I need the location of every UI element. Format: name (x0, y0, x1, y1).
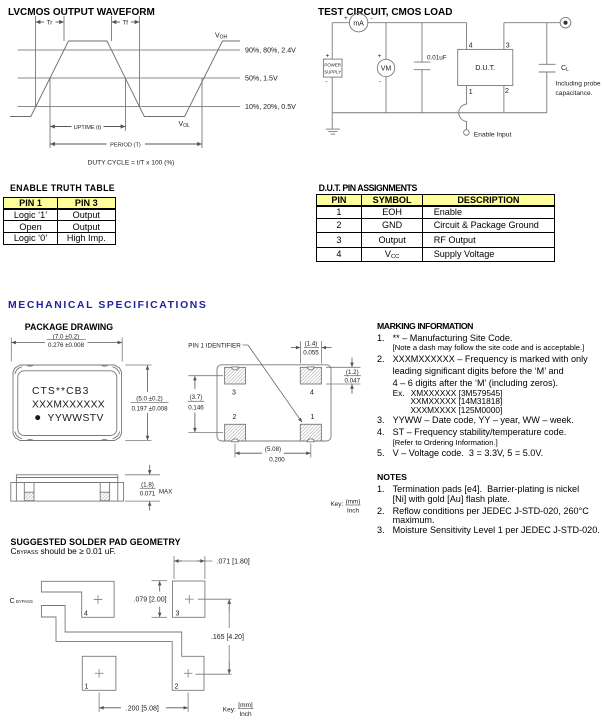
width dimension 7.0 (11, 338, 122, 362)
svg-text:0.276 ±0.008: 0.276 ±0.008 (48, 342, 85, 349)
svg-text:4: 4 (84, 611, 88, 618)
DUT U1 (458, 49, 513, 85)
waveform 50% reference line (18, 77, 241, 79)
svg-text:2: 2 (233, 414, 237, 421)
svg-text:(3.7): (3.7) (190, 394, 203, 401)
dimension .079 [2.00] (152, 581, 168, 618)
svg-text:CTS**CB3: CTS**CB3 (32, 386, 89, 397)
svg-text:mA: mA (353, 21, 364, 28)
package marking pin-1 dot (35, 415, 40, 420)
dimension .200 [5.08] (99, 693, 188, 713)
svg-text:0.047: 0.047 (345, 378, 361, 385)
svg-text:Tr: Tr (47, 21, 52, 27)
castellation notches on pads (232, 367, 239, 370)
Tr arrows (36, 21, 44, 23)
svg-text:C: C (10, 598, 15, 605)
svg-text:.165 [4.20]: .165 [4.20] (211, 634, 244, 641)
castellation notch marks on edges (27, 365, 34, 366)
wire: bypass capacitor branch bottom (421, 70, 423, 113)
wire: top rail from ammeter to DUT pin 4 (368, 22, 467, 24)
DUT pin assignments table (316, 194, 555, 262)
svg-text:PERIOD (T): PERIOD (T) (110, 142, 141, 148)
period dimension arrows (50, 143, 106, 145)
wire: bypass capacitor branch top (421, 23, 423, 62)
output terminal (560, 17, 571, 28)
svg-text:Key:: Key: (223, 707, 236, 714)
svg-text:.200 [5.08]: .200 [5.08] (126, 706, 159, 713)
ground (326, 128, 340, 130)
svg-text:2: 2 (175, 684, 179, 691)
svg-text:.079 [2.00]: .079 [2.00] (134, 597, 167, 604)
svg-text:YYWWSTV: YYWWSTV (48, 413, 104, 424)
wire: DUT pin 2 drop (503, 86, 505, 113)
svg-text:Inch: Inch (239, 711, 252, 718)
pad 4 (bottom view top-right) (300, 367, 321, 384)
svg-text:[mm]: [mm] (238, 702, 253, 709)
enable truth table (3, 197, 116, 244)
svg-text:POWER: POWER (324, 62, 341, 67)
thickness dimension 1.8 MAX (125, 465, 160, 511)
period tick at second rising 50% crossing (201, 78, 203, 148)
pad 4 with bypass trace (41, 581, 114, 617)
lid outline (inner rounded rect) (18, 371, 117, 436)
wire: bottom rail (332, 112, 547, 114)
svg-text:-: - (326, 79, 328, 86)
wire: left rail top (supply +) (331, 23, 333, 59)
capacitor C1 0.01uF plates (414, 61, 431, 63)
ammeter M1 (349, 14, 367, 32)
enable input terminal (464, 130, 470, 136)
pad 3 (173, 581, 205, 617)
svg-text:(5.0 ±0.2): (5.0 ±0.2) (136, 396, 162, 403)
height dimension 5.0 (125, 365, 168, 441)
pad 2 (bottom view bottom-left) (225, 424, 246, 441)
svg-text:0.200: 0.200 (269, 456, 285, 463)
capacitor CL plates (539, 63, 556, 65)
wire: DUT pin 4 drop (466, 23, 468, 50)
waveform 90% reference line (18, 49, 241, 51)
wire: voltmeter branch top (385, 23, 387, 60)
wire: load capacitor branch bottom (546, 72, 548, 113)
svg-text:-: - (371, 16, 373, 23)
pad 2 center mark (184, 669, 193, 678)
NOTES (377, 472, 407, 482)
svg-text:3: 3 (176, 611, 180, 618)
svg-text:(7.0 ±0.2): (7.0 ±0.2) (53, 333, 79, 340)
pad width dimension 1.4 (291, 341, 332, 364)
pad 1 center mark (95, 669, 104, 678)
package body outline (top view) (13, 365, 122, 441)
svg-text:4: 4 (310, 390, 314, 397)
pad 3 center mark (185, 595, 194, 604)
wire: DUT pin 3 to output terminal (504, 22, 560, 24)
wire: ground stem (331, 113, 333, 129)
svg-text:1: 1 (85, 684, 89, 691)
svg-text:UPTIME (t): UPTIME (t) (74, 125, 102, 131)
svg-text:3: 3 (232, 390, 236, 397)
svg-text:0.197 ±0.008: 0.197 ±0.008 (131, 406, 168, 413)
svg-text:+: + (344, 15, 348, 22)
svg-text:0.055: 0.055 (303, 350, 319, 357)
wire: DUT pin 3 drop (503, 23, 505, 50)
svg-text:(1.4): (1.4) (305, 341, 318, 348)
svg-text:+: + (326, 53, 330, 60)
svg-text:BYPASS: BYPASS (16, 599, 33, 604)
voltmeter VM (377, 59, 394, 76)
Tr measurement guide lines (35, 16, 37, 107)
wire: DUT pin 1 with hop over bottom rail (459, 86, 467, 130)
side view left castellation (23, 483, 25, 493)
svg-text:SUPPLY: SUPPLY (324, 69, 341, 74)
svg-text:.071 [1.80]: .071 [1.80] (217, 559, 250, 566)
svg-text:0.146: 0.146 (188, 405, 204, 412)
power supply PS (323, 59, 342, 77)
svg-text:PIN 1 IDENTIFIER: PIN 1 IDENTIFIER (188, 343, 241, 350)
svg-text:VOL: VOL (179, 121, 191, 129)
wire: load capacitor branch top (546, 23, 548, 65)
bottom view outline (217, 365, 331, 441)
svg-text:VOH: VOH (215, 33, 228, 41)
pad height dimension 1.2 (326, 358, 361, 394)
svg-text:(5.08): (5.08) (265, 446, 281, 453)
corner chamfer arcs (15, 367, 22, 374)
dimension .071 [1.80] (174, 556, 213, 579)
dimension .165 [4.20] (196, 599, 232, 674)
Tf arrows (112, 21, 120, 23)
wire: voltmeter branch bottom (385, 77, 387, 113)
pad 1 (bottom view bottom-right) (300, 424, 321, 441)
svg-text:50%, 1.5V: 50%, 1.5V (245, 75, 278, 83)
svg-text:Inch: Inch (347, 507, 359, 514)
Tf measurement guide lines (111, 16, 113, 41)
wire: left rail bottom (supply -) (331, 77, 333, 113)
svg-text:90%, 80%, 2.4V: 90%, 80%, 2.4V (245, 47, 296, 55)
svg-text:MAX: MAX (159, 488, 172, 495)
side view left termination pad (24, 492, 34, 501)
pad column pitch dimension 5.08 (235, 444, 311, 458)
side view right castellation (99, 483, 101, 493)
svg-text:(1.2): (1.2) (346, 369, 359, 376)
side view body (11, 483, 124, 502)
svg-text:10%, 20%, 0.5V: 10%, 20%, 0.5V (245, 103, 296, 111)
pad 1 (82, 656, 116, 690)
svg-text:0.071: 0.071 (140, 490, 156, 497)
pad 4 center mark (94, 595, 103, 604)
side view right termination pad (100, 492, 109, 501)
svg-text:(1.8): (1.8) (141, 481, 154, 488)
waveform 10% reference line (18, 106, 241, 108)
svg-text:(mm): (mm) (346, 498, 361, 505)
pad 2 with bypass trace (41, 606, 204, 691)
uptime tick at first 50% crossing (49, 78, 51, 148)
svg-text:XXXMXXXXXX: XXXMXXXXXX (32, 399, 105, 410)
pad row pitch dimension 3.7 (188, 376, 223, 433)
wire: top rail from supply to ammeter (332, 22, 349, 24)
svg-text:Key:: Key: (331, 501, 344, 508)
svg-text:1: 1 (311, 414, 315, 421)
pad 3 (bottom view top-left) (225, 367, 246, 384)
side view lid (16, 475, 117, 483)
svg-text:DUTY CYCLE = t/T x 100 (%): DUTY CYCLE = t/T x 100 (%) (88, 160, 175, 167)
uptime tick at falling 50% crossing (125, 78, 127, 131)
side view end seams (15, 483, 17, 502)
uptime dimension arrows (50, 126, 71, 128)
svg-text:Tf: Tf (123, 21, 129, 27)
LVCMOS output waveform trace (10, 41, 240, 117)
